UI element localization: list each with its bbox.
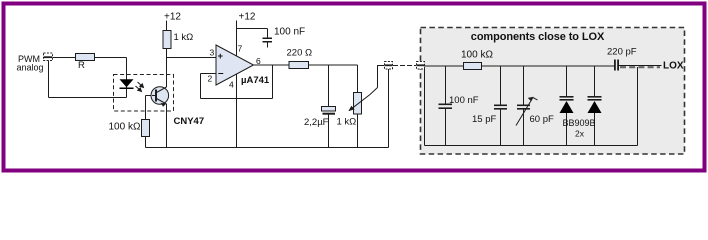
svg-text:4: 4 xyxy=(229,80,234,90)
svg-text:analog: analog xyxy=(17,63,44,73)
svg-text:220 Ω: 220 Ω xyxy=(287,48,313,59)
svg-text:+12: +12 xyxy=(164,12,181,23)
svg-text:R: R xyxy=(78,60,85,71)
svg-text:1 kΩ: 1 kΩ xyxy=(174,32,194,43)
svg-text:3: 3 xyxy=(210,48,215,58)
svg-text:100 nF: 100 nF xyxy=(274,27,305,38)
svg-text:6: 6 xyxy=(256,56,261,66)
svg-text:LOX: LOX xyxy=(663,61,684,72)
svg-text:7: 7 xyxy=(238,44,243,54)
svg-text:15 pF: 15 pF xyxy=(472,114,496,125)
svg-text:100 kΩ: 100 kΩ xyxy=(109,122,141,133)
svg-text:220 pF: 220 pF xyxy=(607,47,637,58)
svg-text:100 kΩ: 100 kΩ xyxy=(461,50,493,61)
svg-text:components close to LOX: components close to LOX xyxy=(471,31,605,43)
svg-text:CNY47: CNY47 xyxy=(174,116,205,127)
svg-text:1 kΩ: 1 kΩ xyxy=(337,117,357,128)
svg-text:–: – xyxy=(218,68,224,79)
svg-text:2,2µF: 2,2µF xyxy=(304,117,329,128)
svg-text:+: + xyxy=(218,51,224,62)
svg-text:BB909B: BB909B xyxy=(563,118,596,128)
svg-text:2: 2 xyxy=(208,74,213,84)
svg-text:100 nF: 100 nF xyxy=(449,95,479,106)
svg-text:2x: 2x xyxy=(575,129,585,139)
svg-text:+12: +12 xyxy=(239,12,256,23)
svg-text:µA741: µA741 xyxy=(241,75,270,86)
svg-text:60 pF: 60 pF xyxy=(530,114,554,125)
